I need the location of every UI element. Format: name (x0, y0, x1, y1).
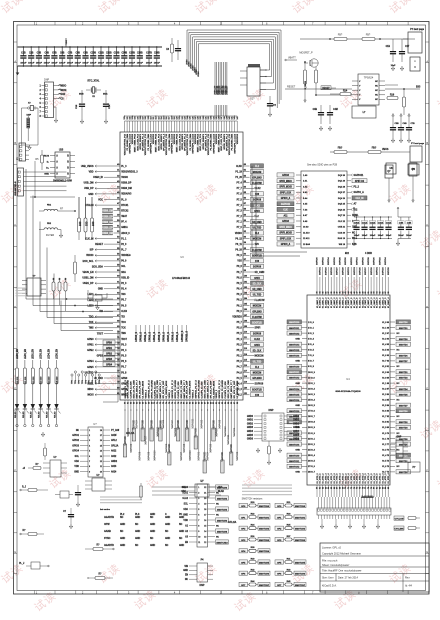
svg-text:GPIO2_S: GPIO2_S (145, 332, 147, 342)
svg-text:GPIO0_P0_0/U1RX: GPIO0_P0_0/U1RX (151, 380, 153, 399)
svg-text:SGPIO5: SGPIO5 (359, 267, 361, 276)
svg-text:SGPIO7: SGPIO7 (337, 267, 339, 276)
svg-text:SMGTCH2: SMGTCH2 (259, 529, 270, 531)
svg-text:SGPIO5: SGPIO5 (209, 443, 212, 453)
svg-text:SMGTCH7: SMGTCH7 (259, 585, 270, 587)
svg-text:69: 69 (117, 326, 119, 328)
svg-text:VDDREG: VDDREG (232, 317, 242, 319)
svg-text:A012: A012 (111, 450, 117, 453)
net label RESET box (321, 86, 336, 90)
svg-text:C4B: C4B (407, 222, 412, 225)
svg-text:81: 81 (187, 402, 189, 404)
svg-text:FB?: FB? (338, 34, 343, 37)
svg-text:100nF: 100nF (362, 235, 368, 237)
capacitor C17B bypass (146, 46, 153, 67)
svg-text:IO_0/MC_0: IO_0/MC_0 (317, 297, 319, 308)
svg-text:SGPIO11: SGPIO11 (354, 175, 365, 177)
svg-text:SGPIO2: SGPIO2 (379, 256, 381, 265)
svg-text:GPIO1: GPIO1 (72, 435, 80, 437)
svg-text:PT_A0#: PT_A0# (111, 429, 120, 432)
svg-text:IO_8/MC_1: IO_8/MC_1 (340, 297, 342, 308)
svg-text:58: 58 (388, 292, 390, 294)
svg-text:107: 107 (244, 315, 247, 317)
svg-text:SMGTCK0: SMGTCK0 (289, 455, 300, 457)
svg-text:SMGTCH1: SMGTCH1 (259, 517, 270, 519)
svg-text:Rev:: Rev: (405, 576, 410, 579)
svg-text:NC: NC (397, 366, 400, 368)
svg-text:SMGTCH1: SMGTCH1 (295, 517, 306, 519)
svg-text:GND: GND (165, 524, 170, 526)
svg-text:41: 41 (339, 292, 342, 294)
bottom header P2 under CPLD (317, 497, 391, 519)
svg-text:GND6: GND6 (293, 439, 300, 441)
svg-text:SGPIO9: SGPIO9 (221, 452, 224, 462)
svg-text:103: 103 (244, 292, 247, 294)
IC U4 CPLD body (307, 295, 390, 485)
svg-text:P? hext page: P? hext page (411, 142, 425, 145)
svg-text:33: 33 (317, 292, 319, 294)
component row y=563 bottom left (19, 562, 49, 569)
svg-text:USB0_ID: USB0_ID (93, 177, 103, 179)
svg-text:P3_7: P3_7 (121, 367, 127, 369)
svg-text:SGPIO1: SGPIO1 (377, 266, 379, 275)
svg-text:USB-MICRO-B: USB-MICRO-B (15, 181, 17, 196)
svg-text:SGPIO0: SGPIO0 (230, 444, 233, 454)
LED D10 indicator chain with resistor (15, 349, 21, 427)
svg-text:TMS: TMS (89, 328, 94, 330)
svg-text:72: 72 (160, 402, 162, 404)
svg-text:IO_0/TD_3: IO_0/TD_3 (345, 473, 347, 484)
svg-text:SMGTCK5: SMGTCK5 (289, 394, 300, 396)
svg-text:P2_3: P2_3 (121, 283, 127, 285)
svg-text:A014: A014 (111, 470, 117, 473)
svg-text:LED3: LED3 (88, 305, 95, 307)
svg-text:GPIO2: GPIO2 (72, 440, 80, 442)
svg-text:12 A11: 12 A11 (303, 237, 310, 240)
svg-text:IO_0/MC_6: IO_0/MC_6 (374, 297, 376, 308)
svg-text:GND: GND (120, 524, 125, 526)
connector P1 JTAG header (DNP) (40, 79, 54, 118)
svg-text:3: 3 (198, 498, 199, 500)
svg-text:MOECM: MOECM (253, 172, 262, 174)
MCU top pin stubs and rotated labels (124, 121, 126, 132)
svg-text:NC: NC (352, 232, 356, 234)
resistor network row 7 col 1 (239, 569, 270, 576)
svg-text:59: 59 (117, 270, 119, 272)
title block frame (320, 543, 429, 592)
wire + net label MOSI from JTAG (54, 89, 67, 92)
svg-text:C8B: C8B (75, 53, 80, 55)
text note: series resistors paragraph (242, 484, 292, 486)
svg-text:IO_1/TD_0: IO_1/TD_0 (377, 473, 379, 484)
svg-text:73: 73 (163, 402, 165, 404)
svg-text:C13B: C13B (114, 53, 120, 55)
wire bus: usb/boot routing (26, 298, 113, 300)
svg-text:U2_RXD/P2_MOSI: U2_RXD/P2_MOSI (166, 380, 168, 398)
IC U11 port expander (80, 423, 110, 477)
svg-text:SPI_SCK_P3_SSP: SPI_SCK_P3_SSP (234, 380, 236, 398)
svg-text:GPIO7_S: GPIO7_S (168, 332, 170, 342)
svg-text:USB1_DM: USB1_DM (82, 278, 93, 280)
svg-text:C7B: C7B (411, 123, 416, 125)
svg-text:P2_9/USB1_DM4: P2_9/USB1_DM4 (189, 133, 192, 150)
svg-text:CLK2/P6_12_SD0: CLK2/P6_12_SD0 (154, 381, 156, 399)
svg-text:SMGTCK4: SMGTCK4 (289, 343, 300, 346)
svg-text:P5_0: P5_0 (237, 361, 243, 363)
svg-text:87: 87 (244, 203, 246, 205)
svg-text:SGPIO11_P1_17_X: SGPIO11_P1_17_X (196, 379, 198, 398)
ground symbols under P6 (257, 448, 259, 450)
svg-text:TDI: TDI (99, 311, 103, 313)
svg-text:See also SDIO pins on P28: See also SDIO pins on P28 (307, 164, 338, 167)
svg-text:100nF: 100nF (106, 62, 113, 64)
svg-text:PF_4: PF_4 (121, 221, 127, 224)
svg-text:CLK2: CLK2 (255, 188, 262, 190)
resistor R11 vertical under VBATT (304, 61, 307, 102)
svg-text:SMGTCK1: SMGTCK1 (289, 461, 300, 463)
DNP header right of CPLD bottom (391, 437, 408, 459)
svg-text:IO_7/MC_3: IO_7/MC_3 (365, 297, 367, 308)
svg-text:SDIO_CLK8_PC4: SDIO_CLK8_PC4 (220, 133, 223, 151)
capacitor C11 left of RTC crystal (76, 90, 85, 124)
ground below crystal loop (28, 133, 32, 150)
svg-text:TPS/624: TPS/624 (364, 77, 374, 80)
svg-text:GPB2: GPB2 (106, 353, 113, 355)
svg-text:SMGTD2: SMGTD2 (399, 378, 408, 380)
svg-text:SMGTD7: SMGTD7 (399, 361, 408, 363)
svg-text:C5B: C5B (52, 53, 57, 55)
svg-text:94: 94 (224, 402, 227, 404)
svg-text:SMGTD6: SMGTD6 (399, 444, 408, 446)
component row far right above title block 2 (394, 526, 420, 530)
svg-text:C14B: C14B (121, 52, 127, 55)
connector P9 next page flag top right (403, 28, 425, 53)
svg-text:4 DDR: 4 DDR (365, 252, 372, 255)
resistor R20 under P6 (267, 441, 271, 465)
CPLD left pin rows with labels (302, 321, 307, 323)
svg-text:22: 22 (204, 487, 206, 489)
svg-text:LED0_EN: LED0_EN (17, 349, 19, 359)
svg-text:VSSIO_2: VSSIO_2 (193, 389, 195, 398)
svg-text:U25: U25 (59, 150, 64, 152)
svg-text:SDA: SDA (181, 490, 186, 493)
text note paragraph small config (100, 496, 142, 498)
wire bus: nested routing loops top center (187, 30, 281, 100)
svg-text:File: mcu.sch: File: mcu.sch (322, 558, 338, 562)
svg-text:NC: NC (135, 524, 139, 526)
svg-text:A013: A013 (111, 465, 117, 468)
svg-text:KiCad E.D.A.: KiCad E.D.A. (322, 585, 337, 588)
wires from U2 right pins (260, 69, 266, 71)
svg-text:IO_0/MC_3: IO_0/MC_3 (345, 297, 347, 308)
svg-text:7 IO_6: 7 IO_6 (308, 355, 314, 357)
svg-text:NC: NC (76, 430, 80, 432)
svg-text:TDI: TDI (121, 317, 125, 319)
svg-text:CLK_IN: CLK_IN (356, 198, 364, 200)
svg-text:P3_5: P3_5 (121, 356, 127, 358)
svg-text:IO_2 87: IO_2 87 (382, 388, 389, 390)
svg-text:SMGTD2: SMGTD2 (399, 422, 408, 424)
junction dots on usb rail (74, 210, 76, 212)
svg-text:SMGTCH2: SMGTCH2 (295, 529, 306, 531)
svg-text:TCK: TCK (121, 328, 126, 330)
svg-text:100nF: 100nF (398, 235, 404, 237)
svg-text:SGPIO8: SGPIO8 (255, 384, 264, 386)
svg-text:SGPIO8: SGPIO8 (253, 267, 262, 269)
svg-text:IO_5 94: IO_5 94 (382, 349, 390, 352)
svg-text:GPL2/K8: GPL2/K8 (252, 378, 262, 380)
svg-text:IO_3/MC_6: IO_3/MC_6 (354, 297, 356, 308)
svg-text:IO_4 85: IO_4 85 (382, 399, 390, 402)
svg-text:SPIFI: SPIFI (254, 211, 260, 213)
svg-text:49: 49 (117, 213, 119, 216)
svg-text:VDDIO: VDDIO (235, 233, 242, 235)
svg-text:IO_4/MC_0: IO_4/MC_0 (356, 297, 359, 308)
svg-text:P3_4: P3_4 (121, 349, 127, 352)
svg-text:SDA: SDA (121, 271, 126, 274)
svg-text:NC: NC (165, 545, 169, 547)
svg-text:B: B (426, 141, 428, 145)
svg-text:4 IO_3: 4 IO_3 (308, 337, 314, 340)
wire from JTAG pin to ground (54, 107, 58, 123)
svg-text:SMGTD3: SMGTD3 (399, 339, 408, 341)
svg-text:IO_5/MC_5: IO_5/MC_5 (331, 297, 333, 308)
svg-text:80: 80 (184, 402, 186, 404)
svg-text:20 IO_9: 20 IO_9 (308, 427, 315, 429)
svg-text:IO_8/MC_4: IO_8/MC_4 (367, 297, 370, 308)
svg-text:7: 7 (198, 520, 199, 522)
svg-text:LED1_EN: LED1_EN (25, 349, 27, 359)
svg-text:100nF: 100nF (406, 235, 412, 237)
svg-text:M: M (414, 66, 416, 69)
wire bus: mid risers to MCU top (214, 62, 216, 93)
svg-text:SPI_MISO3_P1_4: SPI_MISO3_P1_4 (225, 133, 228, 151)
svg-text:P6_5: P6_5 (237, 283, 243, 285)
ferrite bead FB3 top (329, 34, 347, 41)
svg-text:CLK2: CLK2 (254, 339, 261, 341)
svg-text:SDIO_CLK8_PC4: SDIO_CLK8_PC4 (157, 133, 160, 151)
svg-text:SMGTCH6: SMGTCH6 (295, 574, 306, 576)
svg-text:NC: NC (185, 579, 189, 581)
svg-text:NC: NC (397, 350, 400, 352)
svg-text:GPL2A: GPL2A (111, 444, 119, 447)
svg-text:100nF: 100nF (386, 235, 392, 237)
svg-text:NC: NC (135, 545, 139, 547)
wire: cap bank top bus (18, 46, 163, 48)
svg-text:CLK 22: CLK 22 (338, 221, 346, 223)
svg-text:SGPIO11: SGPIO11 (192, 418, 195, 429)
inductor L1 to 5V rail (385, 85, 398, 100)
power input rail top right (300, 38, 415, 40)
wire: cap bank bottom bus (18, 65, 163, 67)
svg-text:P7_5: P7_5 (237, 199, 243, 201)
svg-text:86: 86 (201, 402, 203, 404)
svg-text:TDO: TDO (121, 322, 126, 324)
svg-text:PL3: PL3 (135, 514, 140, 516)
svg-text:C7B: C7B (68, 53, 73, 55)
svg-text:FB?: FB? (366, 34, 371, 37)
svg-text:16: 16 (100, 440, 102, 442)
svg-text:SDA: SDA (183, 508, 188, 511)
svg-text:SGPIO4: SGPIO4 (136, 419, 139, 429)
svg-text:P7_0: P7_0 (237, 227, 243, 229)
svg-text:U2?: U2? (250, 98, 255, 101)
svg-text:SMGTD0: SMGTD0 (399, 455, 408, 457)
svg-text:C1T: C1T (405, 46, 410, 48)
svg-text:C: C (426, 223, 428, 227)
svg-text:GND: GND (98, 289, 103, 291)
svg-text:89: 89 (244, 214, 246, 216)
svg-text:GPIO0_P0_0/U1RX: GPIO0_P0_0/U1RX (222, 380, 224, 399)
svg-text:IO_1/MC_0: IO_1/MC_0 (377, 297, 379, 308)
svg-text:GPIO3_A: GPIO3_A (281, 243, 291, 246)
svg-text:IO_7 92: IO_7 92 (382, 361, 389, 363)
svg-text:SD_CMD: SD_CMD (252, 289, 262, 291)
svg-text:SMGTCH7: SMGTCH7 (295, 585, 306, 587)
svg-text:82: 82 (244, 175, 246, 177)
svg-text:IO_6 93: IO_6 93 (382, 355, 389, 357)
svg-text:13 IO_2: 13 IO_2 (308, 388, 315, 390)
svg-text:SGPIO9: SGPIO9 (150, 420, 153, 430)
net label VBATT arrow (285, 57, 297, 62)
svg-text:ENET_MDC4_P7_7: ENET_MDC4_P7_7 (136, 379, 139, 398)
decoupling cap row right mid (352, 207, 392, 246)
svg-text:46: 46 (353, 291, 356, 293)
svg-text:C2B: C2B (29, 53, 34, 55)
svg-text:SMGTCH4: SMGTCH4 (259, 550, 270, 553)
svg-text:IO_7 82: IO_7 82 (382, 416, 389, 418)
svg-text:P6_12: P6_12 (235, 238, 242, 240)
svg-text:GND5: GND5 (247, 435, 254, 437)
svg-text:92: 92 (244, 231, 246, 233)
svg-text:GND3: GND3 (293, 427, 300, 429)
svg-text:IO_6/TD_6: IO_6/TD_6 (334, 473, 336, 484)
svg-text:GPIO6_S: GPIO6_S (163, 332, 165, 342)
svg-text:IO_1/TD_1: IO_1/TD_1 (320, 473, 322, 484)
connector P11 bottom right (408, 462, 420, 472)
svg-text:P2_9/USB1_DM4: P2_9/USB1_DM4 (147, 133, 150, 150)
svg-text:SGPIO4/P6_3_CLK2: SGPIO4/P6_3_CLK2 (212, 133, 215, 153)
svg-text:120: 120 (244, 387, 247, 389)
svg-text:25 IO_4: 25 IO_4 (308, 454, 316, 457)
svg-text:SCL: SCL (184, 503, 189, 505)
svg-text:ENET_MDC4_P7_7: ENET_MDC4_P7_7 (206, 379, 209, 398)
resistor network row 3 col 1 (239, 524, 270, 531)
resistor network row 1 col 2 (275, 502, 306, 508)
svg-text:CS: CS (61, 99, 65, 101)
svg-text:SGPIO0: SGPIO0 (374, 256, 376, 265)
svg-text:VCC: VCC (98, 199, 103, 201)
svg-text:SPI_MISO3_P1_4: SPI_MISO3_P1_4 (163, 133, 166, 151)
svg-text:64: 64 (327, 487, 330, 489)
svg-text:CYCLINK: CYCLINK (394, 528, 404, 530)
svg-text:USB0_DM: USB0_DM (102, 233, 113, 235)
svg-text:USB_VBUS: USB_VBUS (81, 166, 94, 168)
IC U6 TPS62410 buck converter (352, 74, 385, 105)
svg-text:GPIO3_A: GPIO3_A (281, 197, 291, 200)
svg-text:P2_9/USB1_DM4: P2_9/USB1_DM4 (231, 133, 234, 150)
svg-text:SGPIO6: SGPIO6 (334, 256, 336, 265)
svg-text:GND: GND (135, 531, 140, 533)
svg-text:SMGTD0: SMGTD0 (399, 322, 408, 324)
svg-text:SPI_MISO3_P1_4: SPI_MISO3_P1_4 (142, 133, 145, 151)
svg-text:TRST: TRST (97, 333, 104, 335)
svg-text:VDD: VDD (74, 466, 79, 468)
capacitor C10B bypass (90, 46, 97, 67)
svg-text:MISO: MISO (88, 389, 94, 391)
svg-text:GND1: GND1 (293, 420, 300, 422)
svg-text:SGPIO9: SGPIO9 (342, 267, 344, 276)
svg-text:ENET_MDC4_P7_7: ENET_MDC4_P7_7 (230, 379, 233, 398)
svg-text:IO_0 99: IO_0 99 (382, 322, 389, 324)
svg-text:SPI_SCK_P3_SSP: SPI_SCK_P3_SSP (140, 380, 142, 398)
svg-text:USB0_DM: USB0_DM (102, 211, 113, 213)
IC U25 voltage regulator (50, 150, 75, 183)
svg-text:GPIO4: GPIO4 (72, 450, 80, 453)
LED D11 indicator chain with resistor (23, 349, 29, 427)
svg-text:110: 110 (244, 332, 247, 334)
svg-text:SGPIO4/P6_3_CLK2: SGPIO4/P6_3_CLK2 (128, 133, 131, 153)
svg-text:GTL2/A: GTL2/A (228, 521, 237, 524)
svg-text:P1_19: P1_19 (235, 171, 242, 173)
svg-text:GND2: GND2 (111, 461, 118, 463)
svg-text:VDDIO3V3: VDDIO3V3 (237, 133, 239, 144)
svg-text:SDIO_D0_P1_CMD: SDIO_D0_P1_CMD (157, 380, 159, 399)
ground for cap bank (16, 66, 20, 75)
svg-text:84: 84 (195, 402, 198, 404)
svg-text:DQ5 25: DQ5 25 (338, 204, 346, 206)
svg-text:69: 69 (151, 402, 153, 404)
svg-text:GND: GND (295, 472, 300, 474)
svg-text:100nF: 100nF (51, 62, 58, 64)
svg-text:Date: 27 feb 2014: Date: 27 feb 2014 (338, 576, 358, 579)
wire: usb rail risers (34, 161, 36, 197)
svg-text:93: 93 (244, 237, 246, 239)
svg-text:DQ6 24: DQ6 24 (338, 208, 346, 211)
svg-text:C: C (14, 223, 16, 227)
MCU top bus horizontal (125, 120, 238, 122)
svg-text:A0DF: A0DF (111, 434, 117, 437)
svg-text:SCL: SCL (75, 456, 80, 458)
svg-text:SPI_MISO3_P1_4: SPI_MISO3_P1_4 (184, 133, 187, 151)
svg-text:LED5_EN: LED5_EN (56, 349, 58, 359)
svg-text:IO_9/TD_5: IO_9/TD_5 (371, 473, 373, 484)
resistor network row 7 col 2 (275, 569, 306, 576)
svg-text:96: 96 (231, 402, 233, 404)
svg-text:44: 44 (347, 291, 350, 293)
svg-text:SMGTCK6: SMGTCK6 (289, 444, 300, 446)
svg-text:GND4: GND4 (293, 430, 300, 433)
svg-text:U2_RXD/P2_MOSI: U2_RXD/P2_MOSI (213, 380, 215, 398)
svg-text:SPIFI_MISO: SPIFI_MISO (279, 227, 292, 229)
svg-text:DNP: DNP (27, 115, 32, 117)
svg-text:19: 19 (204, 503, 206, 505)
svg-text:SGPIO4/P6_3_CLK2: SGPIO4/P6_3_CLK2 (233, 133, 236, 153)
IC U13 LP5907 regulator (85, 475, 112, 491)
capacitor C4B below U6 (313, 105, 325, 131)
svg-text:MISO: MISO (61, 86, 67, 88)
ground after FB2 (59, 230, 63, 238)
svg-text:52: 52 (117, 231, 119, 233)
svg-text:SMGTD4: SMGTD4 (399, 388, 408, 391)
MCU top riser wires (124, 115, 125, 116)
svg-text:68: 68 (148, 402, 150, 404)
svg-text:D-: D- (47, 162, 50, 164)
svg-text:SCK: SCK (61, 94, 66, 96)
svg-text:P2_9/USB1_DM4: P2_9/USB1_DM4 (126, 133, 129, 150)
svg-text:GND: GND (135, 538, 140, 540)
svg-text:15 IO_4: 15 IO_4 (308, 399, 316, 402)
